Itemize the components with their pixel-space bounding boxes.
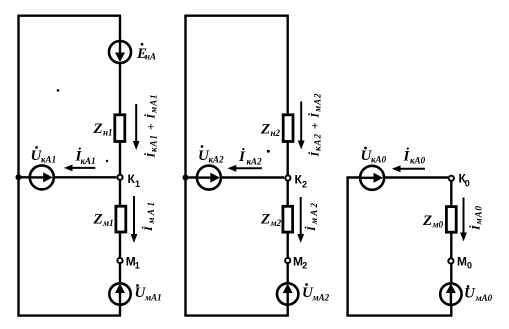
source U_mA1 bbox=[109, 283, 130, 305]
wire K2 to left A2 bbox=[186, 176, 285, 178]
junction A1 bbox=[16, 174, 22, 180]
node K1 bbox=[117, 175, 122, 180]
wire right vertical A0 bbox=[450, 178, 452, 316]
source U_mA0 bbox=[440, 283, 461, 305]
wire right vertical A2 bbox=[287, 16, 289, 316]
svg-text:м0: м0 bbox=[432, 220, 444, 230]
label Z_n1 bbox=[93, 121, 113, 138]
label E_nA bbox=[136, 43, 156, 62]
wire left vertical A2 bbox=[184, 16, 186, 316]
svg-text:Z: Z bbox=[260, 212, 270, 228]
node M1 bbox=[117, 258, 122, 263]
svg-text:кА2: кА2 bbox=[209, 155, 225, 165]
label U_mA0 bbox=[464, 285, 493, 303]
impedance Z_n2 bbox=[283, 115, 293, 142]
arrow I_kA1+I_mA1 bbox=[133, 104, 140, 150]
svg-text:кА0: кА0 bbox=[410, 156, 426, 166]
speck artifact bbox=[267, 150, 270, 153]
svg-text:0: 0 bbox=[465, 178, 470, 188]
svg-text:Z: Z bbox=[93, 212, 103, 228]
label M2 bbox=[293, 255, 307, 271]
source U_kA2 bbox=[197, 166, 221, 190]
svg-text:кА1: кА1 bbox=[41, 155, 56, 165]
label M1 bbox=[126, 255, 140, 271]
speck artifact bbox=[106, 160, 108, 162]
wire left vertical A1 bbox=[17, 16, 19, 316]
svg-text:İ: İ bbox=[238, 148, 246, 165]
svg-text:нА: нА bbox=[145, 52, 156, 62]
svg-text:мА0: мА0 bbox=[475, 293, 493, 303]
label I_mA1 (rotated) bbox=[141, 202, 156, 232]
svg-text:U: U bbox=[464, 286, 476, 302]
svg-text:1: 1 bbox=[135, 261, 140, 271]
label U_mA1 bbox=[135, 284, 162, 302]
label K2 bbox=[295, 173, 308, 190]
node M2 bbox=[285, 258, 290, 263]
node M0 bbox=[448, 258, 453, 263]
arrow I_mA2 bbox=[297, 197, 304, 243]
label I_kA2+I_mA2 (rotated) bbox=[308, 93, 323, 158]
svg-text:кА0: кА0 bbox=[371, 155, 387, 165]
impedance Z_m2 bbox=[283, 206, 293, 232]
label I_kA1+I_mA1 (rotated) bbox=[144, 95, 159, 159]
wire right vertical A1 bbox=[119, 16, 121, 316]
wire K1 to left A1 bbox=[19, 176, 117, 178]
wire top A1 bbox=[17, 14, 121, 16]
label Z_n2 bbox=[260, 122, 280, 139]
svg-text:Z: Z bbox=[422, 213, 432, 229]
impedance Z_n1 bbox=[115, 115, 125, 142]
label U_mA2 bbox=[302, 283, 330, 302]
svg-text:2: 2 bbox=[302, 261, 307, 271]
arrow I_kA2 bbox=[228, 165, 262, 172]
arrow I_mA1 bbox=[131, 196, 138, 243]
node K2 bbox=[285, 175, 290, 180]
wire top A2 bbox=[184, 14, 288, 16]
label U_kA1 bbox=[31, 146, 57, 164]
label K1 bbox=[128, 172, 141, 189]
impedance Z_m1 bbox=[116, 206, 126, 232]
arrow I_kA2+I_mA2 bbox=[298, 102, 305, 150]
svg-text:кА2: кА2 bbox=[247, 157, 263, 167]
impedance Z_m0 bbox=[446, 207, 456, 233]
arrow I_mA0 bbox=[460, 198, 467, 242]
label Z_m0 bbox=[422, 213, 444, 230]
wire left vertical A0 bbox=[346, 178, 348, 316]
svg-text:2: 2 bbox=[302, 180, 307, 190]
label K0 bbox=[459, 171, 470, 188]
arrow I_kA0 bbox=[392, 165, 425, 172]
source U_kA0 bbox=[360, 166, 384, 190]
label U_kA0 bbox=[361, 147, 387, 165]
label U_kA2 bbox=[198, 145, 224, 164]
label I_kA0 bbox=[403, 148, 426, 166]
svg-text:н1: н1 bbox=[103, 128, 113, 138]
EMF source E_nA bbox=[109, 41, 131, 63]
svg-text:н2: н2 bbox=[271, 128, 281, 138]
node K0 bbox=[449, 176, 454, 181]
source U_mA2 bbox=[277, 283, 298, 305]
svg-text:Z: Z bbox=[93, 121, 103, 137]
svg-text:мА1: мА1 bbox=[144, 293, 162, 303]
label Z_m1 bbox=[93, 212, 114, 229]
svg-text:м2: м2 bbox=[270, 218, 282, 228]
svg-text:0: 0 bbox=[467, 261, 472, 271]
label Z_m2 bbox=[260, 212, 282, 229]
wire bottom A0 bbox=[346, 314, 452, 316]
label I_mA2 (rotated) bbox=[304, 203, 319, 233]
speck artifact bbox=[57, 89, 60, 92]
label M0 bbox=[457, 255, 472, 271]
svg-text:кА1: кА1 bbox=[81, 156, 96, 166]
label I_kA2 bbox=[238, 148, 262, 167]
label I_mA0 (rotated) bbox=[469, 206, 484, 232]
svg-text:мА2: мА2 bbox=[312, 293, 330, 303]
wire bottom A1 bbox=[17, 314, 121, 316]
wire bottom A2 bbox=[184, 314, 288, 316]
svg-text:Z: Z bbox=[260, 122, 270, 138]
label I_kA1 bbox=[75, 148, 96, 167]
svg-text:М: М bbox=[457, 255, 467, 269]
wire top A0 bbox=[346, 176, 448, 178]
source U_kA1 bbox=[30, 165, 54, 189]
svg-text:1: 1 bbox=[135, 179, 140, 189]
junction A2 bbox=[183, 175, 189, 181]
arrow I_kA1 bbox=[64, 165, 96, 172]
svg-text:м1: м1 bbox=[102, 218, 114, 228]
